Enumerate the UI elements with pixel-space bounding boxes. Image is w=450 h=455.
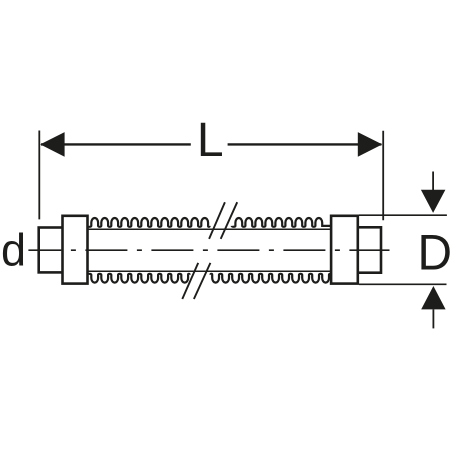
dimension line L left segment [41,143,191,145]
left stub pipe [39,228,64,273]
break mark slash 2 lower [194,263,211,299]
extension line right (L) [382,131,384,220]
D arrowhead down [421,190,446,213]
D top reference line [359,214,447,216]
D arrow upper leader [432,172,434,192]
corrugation bottom left segment [88,274,190,283]
D bottom reference line [359,283,447,285]
left collar nut [63,216,88,284]
svg-text:L: L [197,114,224,167]
extension line left (L) [38,131,40,220]
break mark slash 1 upper [209,202,225,239]
corrugation top left segment [88,218,210,227]
corrugation bottom right segment [211,274,332,283]
hose top wall line [64,228,331,230]
dimension line L right segment [228,143,382,145]
corrugation top right segment [232,218,332,227]
arrowhead left (L) [40,132,64,157]
right collar nut [331,216,358,284]
break mark slash 1 lower [182,263,198,299]
arrowhead right (L) [358,132,382,157]
centerline (dash-dot axis) [28,249,389,251]
svg-text:D: D [418,224,450,280]
D arrow lower leader [432,309,434,328]
right stub pipe [357,227,382,272]
hose bottom wall line [64,270,331,272]
svg-text:d: d [1,224,26,275]
D arrowhead up [421,286,445,309]
break mark slash 2 upper [221,202,238,239]
